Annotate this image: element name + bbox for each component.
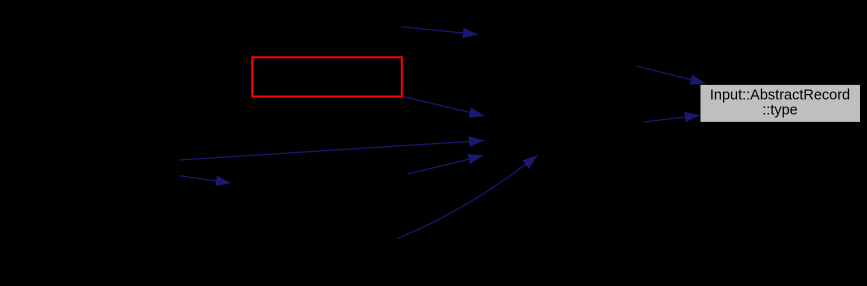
svg-text:Input::AbstractRecord: Input::AbstractRecord xyxy=(710,88,850,104)
svg-text:::type: ::type xyxy=(762,103,797,119)
